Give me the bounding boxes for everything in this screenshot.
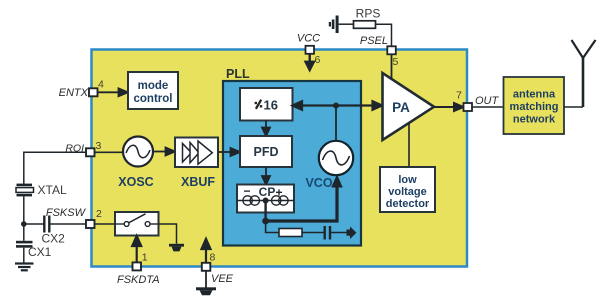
oscillator VCO [305,141,353,190]
svg-text:VCC: VCC [297,33,320,45]
wire pin2 to switch [95,223,116,225]
svg-text:network: network [513,114,556,126]
wire pin7 to antenna matching network [472,106,504,108]
wire PFD to CP [262,167,270,185]
svg-text:matching: matching [510,101,559,113]
wire pin3 to XTAL branch [24,152,86,184]
wire RPS to pin5 [376,24,392,46]
arrow (to VCO tune, filled) [347,227,357,240]
resistor RPS [354,21,376,29]
svg-text:VCO: VCO [305,176,332,190]
wire ROI pin3 to XOSC [95,151,124,153]
svg-text:FSKDTA: FSKDTA [117,274,160,286]
PLL block (blue region) [223,81,361,246]
svg-text:XOSC: XOSC [118,175,153,189]
wire ÷16 to PFD [262,121,270,137]
ground (VEE) [196,287,216,295]
svg-text:RPS: RPS [356,7,381,21]
block mode control [128,72,178,109]
wire FSKDTA arrow into switch [132,236,141,263]
wire CX1 to ground [23,248,25,263]
wire XOSC to XBUF [153,148,175,156]
wire junction to CX2 [24,223,44,225]
wire pin8 to ground [205,271,207,288]
ground (RPS, rotated) [329,16,339,34]
wire PSEL pin5 to PA [391,55,393,80]
svg-text:control: control [134,93,173,105]
svg-text:2: 2 [96,208,102,220]
svg-text:XBUF: XBUF [181,175,215,189]
wire PA to low voltage detector [408,123,410,167]
wire network to antenna [564,106,583,108]
crystal XTAL [16,184,34,197]
capacitor CX1 [16,241,33,248]
wire VCC arrow into chip [306,54,314,70]
pin 4 ENTX [89,88,98,96]
amplifier PA [383,73,435,140]
block low voltage detector [380,167,435,212]
wire capacitor to arrow [330,232,347,234]
wire VCO output up [335,106,337,142]
pin 6 VCC [306,46,315,54]
svg-text:3: 3 [96,140,102,152]
node loop-filter junction [262,218,269,225]
svg-text:7: 7 [456,90,462,102]
svg-text:VEE: VEE [211,273,234,285]
svg-text:low: low [398,174,417,186]
wire ENTX pin4 to mode control [96,88,128,96]
svg-text:CX1: CX1 [28,245,52,259]
charge pump CP [237,184,294,213]
svg-text:+: + [275,186,282,200]
ground (switch) [169,244,184,252]
capacitor CX2 [44,216,49,233]
svg-text:detector: detector [386,198,430,210]
svg-text:OUT: OUT [475,95,500,107]
svg-text:ENTX: ENTX [59,87,89,99]
wire CP output down [264,201,266,222]
wire junction down to loop filter [266,221,279,233]
pin 5 PSEL [387,46,396,54]
switch FSK [115,212,159,236]
svg-text:CX2: CX2 [42,232,66,246]
block PFD [240,136,292,167]
wire feedback to ÷16 and to PA [293,101,383,110]
wire VEE arrow into chip [202,239,211,263]
wire XTAL to junction [23,196,25,224]
svg-text:16: 16 [264,98,278,113]
svg-text:antenna: antenna [513,89,556,101]
svg-text:−: − [243,184,250,198]
svg-text:mode: mode [138,80,169,92]
pin 1 FSKDTA [133,262,142,270]
ground (CX1) [15,262,34,271]
svg-text:voltage: voltage [388,186,427,198]
wire XBUF to PFD [218,148,240,156]
wire junction to VCO (thick) [266,176,342,222]
svg-text:1: 1 [142,252,148,264]
svg-text:8: 8 [210,252,216,264]
buffer XBUF [175,138,218,190]
chip body (IC outline) [92,50,468,267]
oscillator XOSC [118,137,153,190]
capacitor (loop filter) [325,226,330,240]
wire CX2 to pin2 [49,223,86,225]
wire switch to ground [159,224,177,244]
pin 2 FSKSW [86,220,95,228]
svg-text:PSEL: PSEL [360,35,388,47]
resistor (loop filter) [279,229,302,237]
wire PA output to pin7 [434,103,464,111]
svg-text:PLL: PLL [226,67,250,81]
svg-text:PFD: PFD [254,145,279,159]
svg-text:4: 4 [98,79,104,91]
pin 3 ROI [86,148,95,156]
svg-text:PA: PA [392,100,410,115]
svg-text:XTAL: XTAL [38,183,67,197]
node CX junction [21,221,27,227]
block antenna matching network [504,77,565,134]
svg-text:FSKSW: FSKSW [46,207,87,219]
node VCO output [333,103,339,109]
pin 8 VEE [202,263,211,271]
wire junction to CX1 [23,224,25,241]
divider ÷16 block [240,88,293,121]
wire ground to RPS [339,23,354,25]
pin 7 OUT [464,103,473,111]
svg-text:CP: CP [259,185,276,199]
svg-text:5: 5 [393,56,399,68]
svg-text:6: 6 [315,54,321,66]
antenna [572,40,596,107]
wire resistor to capacitor [302,232,324,234]
